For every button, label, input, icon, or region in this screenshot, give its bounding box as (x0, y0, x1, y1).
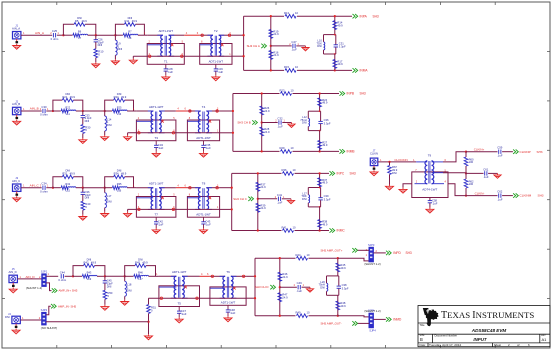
off-page arrow AMP_IN+ (52, 288, 57, 292)
network 1 top loop right (73, 177, 83, 188)
shunt inductor branch 2 (104, 208, 106, 212)
wire T2 lower to output loop (220, 132, 233, 134)
wire T2 top to output loop (220, 110, 233, 112)
svg-text:(NO SHUNT): (NO SHUNT) (41, 326, 58, 330)
capacitor C42 decoupling (154, 217, 164, 228)
svg-text:SH3: SH3 (537, 150, 543, 154)
wire T9 pin4 to bottom rail (448, 184, 466, 196)
svg-text:C38: C38 (342, 283, 347, 287)
resistor R45b 49.9 right top (336, 263, 340, 272)
svg-text:49.9: 49.9 (132, 19, 138, 23)
svg-text:AMP_IN+ SH5: AMP_IN+ SH5 (59, 289, 78, 293)
network 1 series wire right (88, 34, 96, 36)
LC box right lower (335, 47, 337, 54)
wire to L-network 1 (57, 34, 64, 36)
shunt branch (104, 276, 106, 280)
svg-text:24.9: 24.9 (273, 53, 279, 57)
wire SJP4 to INMD (373, 318, 385, 320)
svg-text:100: 100 (469, 160, 474, 164)
svg-text:49.9: 49.9 (70, 95, 76, 99)
wire to transformer (144, 34, 147, 36)
net1 series wire right (97, 275, 105, 277)
wire secondary lower (128, 208, 220, 210)
mid tap wire 2 (282, 122, 291, 124)
svg-text:49.9: 49.9 (322, 143, 328, 147)
svg-text:CLKIN+: CLKIN+ (474, 148, 485, 152)
off-page arrow AMP_IN- (51, 304, 56, 308)
svg-text:T1: T1 (164, 60, 168, 64)
capacitor C34 series input (43, 186, 45, 190)
capacitor C61 mid (485, 171, 487, 175)
off-page arrow CLKINM (513, 193, 518, 197)
svg-text:ADT1-1WT: ADT1-1WT (159, 29, 174, 33)
wire between networks (83, 187, 105, 189)
net2 top loop right (146, 266, 156, 277)
svg-text:SH3: SH3 (373, 14, 379, 18)
shunt branch wire 2 (82, 118, 84, 125)
right leg top (319, 173, 321, 187)
output loop left vertical (243, 16, 245, 70)
resistor R67 49.9 (DNI) (388, 166, 392, 175)
svg-text:SJP2: SJP2 (41, 308, 48, 312)
divider vertical (261, 94, 263, 152)
resistor R46 24.9 divider top (278, 272, 282, 281)
resistor R6 series (73, 33, 80, 37)
svg-text:R29: R29 (280, 146, 285, 150)
svg-text:R23: R23 (280, 88, 285, 92)
wire AIN_D to jumper (17, 278, 41, 280)
jumper SJP3 (369, 247, 373, 261)
capacitor C34 decoupling ground (152, 152, 160, 158)
off-page arrow AMP_OUT+ (352, 248, 357, 252)
inductor L10 parallel (324, 42, 325, 50)
resistor R23 10 top rail (281, 92, 292, 96)
shunt branch wire 3 (95, 58, 97, 63)
svg-text:T6: T6 (226, 270, 230, 274)
svg-text:TEXAS INSTRUMENTS: TEXAS INSTRUMENTS (441, 310, 534, 321)
network 2 top loop right (125, 100, 134, 111)
capacitor C28 decoupling plates (164, 69, 168, 71)
LC box left upper (323, 35, 325, 42)
output bottom rail D (255, 315, 296, 317)
off-page arrow CLKINP (513, 150, 518, 154)
resistor R16 24.9 divider bottom (269, 50, 273, 59)
wire J4 to SJP2 (20, 319, 41, 321)
transformer T3 ADT1-1WT (136, 105, 176, 141)
svg-text:ADT1-1WT: ADT1-1WT (196, 136, 211, 140)
wire to secondary ground (127, 133, 129, 135)
svg-text:B: B (420, 337, 423, 342)
svg-text:L15: L15 (66, 189, 71, 193)
resistor R39 24.9 divider bottom (256, 203, 260, 212)
resistor R42 49.9 (DNI) (84, 264, 95, 268)
off-page arrow INMA (353, 68, 358, 72)
shunt branch wire 3 (82, 134, 84, 139)
transformer T6 ADT1-1WT (210, 270, 246, 305)
connector J2 (AIN_B) ground (13, 120, 21, 126)
svg-text:R6: R6 (78, 30, 82, 34)
resistor R40 0 shunt (81, 201, 85, 210)
svg-text:SH3 CH C: SH3 CH C (233, 197, 247, 201)
capacitor C27 mid tap (293, 44, 295, 48)
output top rail D (255, 257, 296, 259)
ground mid tap (287, 199, 294, 204)
svg-text:.1uF: .1uF (205, 223, 211, 227)
network 2 top loop right (135, 24, 144, 35)
shunt inductor branch (104, 111, 106, 116)
output bottom rail (233, 150, 280, 152)
shunt cap branch wire (95, 35, 97, 39)
svg-text:INMC: INMC (337, 229, 346, 233)
shunt branch wire 3 (82, 210, 84, 215)
capacitor C36 13pF shunt (81, 192, 85, 194)
right leg bottom (334, 54, 336, 70)
cap C59 to arrow (502, 151, 513, 153)
connector J3 (AIN_C) ground (13, 196, 21, 202)
ground T9 primary (399, 188, 407, 194)
inductor L17 parallel (308, 195, 309, 203)
svg-text:C62: C62 (497, 190, 503, 194)
mid tap wire (271, 45, 292, 47)
resistor R26 24.9 divider top (260, 106, 264, 115)
network 1 top loop right (73, 100, 83, 111)
svg-text:R22: R22 (65, 105, 70, 109)
LC box right upper (320, 188, 322, 198)
resistor R35 series (112, 186, 119, 190)
svg-text:24.9: 24.9 (264, 130, 270, 134)
mid tap wire D (280, 286, 297, 288)
resistor R49 10 bottom rail (297, 314, 308, 318)
capacitor C46 mid tap (298, 285, 300, 289)
LC box left upper D (326, 276, 328, 283)
output bottom rail (244, 69, 284, 71)
resistor R62 100 (464, 179, 468, 188)
network 2 series wire (115, 34, 123, 36)
inductor L8 series (130, 34, 138, 35)
inductor L17b series (141, 275, 149, 276)
connector J1 (AIN_A) (12, 24, 21, 44)
svg-text:DNI: DNI (127, 288, 132, 292)
network 1 top loop (53, 100, 62, 111)
ground C58 (426, 208, 434, 214)
resistor R38 49.9 right bottom (318, 220, 322, 229)
jumper SJP2 (42, 312, 46, 325)
svg-text:.1uF: .1uF (167, 70, 173, 74)
svg-text:T4: T4 (202, 105, 206, 109)
svg-text:.1uF: .1uF (277, 124, 283, 128)
svg-text:0 ohm: 0 ohm (40, 113, 48, 117)
LC box right upper (335, 35, 337, 45)
svg-text:R13: R13 (284, 11, 289, 15)
svg-text:T7: T7 (154, 212, 158, 216)
network 2 series wire right (138, 34, 145, 36)
svg-text:.1uF: .1uF (205, 146, 211, 150)
capacitor C47 decoupling plates (177, 311, 181, 313)
svg-text:SH3 CH A: SH3 CH A (247, 44, 260, 48)
svg-text:CLKINP: CLKINP (520, 150, 531, 154)
capacitor C43 decoupling plates (201, 222, 205, 224)
svg-text:49.9: 49.9 (70, 172, 76, 176)
svg-text:SH3 CH B: SH3 CH B (237, 121, 250, 125)
network 1 top loop (53, 177, 62, 188)
wire secondary lower (133, 55, 232, 57)
resistor R7 series (123, 33, 130, 37)
svg-text:DNI: DNI (107, 200, 112, 204)
LC box right lower D (338, 289, 340, 296)
svg-text:SJP4: SJP4 (369, 328, 376, 332)
ground mid tap D (306, 287, 313, 292)
wire between networks (83, 110, 105, 112)
svg-text:DNI: DNI (320, 285, 325, 289)
ground mid tap (302, 46, 309, 51)
LC box bottom (308, 130, 320, 132)
wire R51 to ground (148, 314, 150, 335)
inductor L18 shunt (125, 281, 127, 296)
off-page arrow SH3 CH A (261, 44, 266, 48)
svg-text:of: of (517, 343, 520, 347)
svg-text:DNI: DNI (117, 169, 122, 173)
network 1 series wire right (76, 110, 83, 112)
wire T2 lower to output loop (220, 208, 232, 210)
output bottom rail right (293, 150, 340, 152)
capacitor C58 center tap (428, 201, 432, 203)
resistor R43 series (82, 275, 89, 279)
svg-text:INPD: INPD (393, 251, 401, 255)
svg-text:49.9: 49.9 (322, 181, 328, 185)
capacitor C30 series input (43, 109, 45, 113)
svg-text:R35: R35 (117, 182, 122, 186)
svg-text:L17: L17 (138, 277, 143, 281)
LC box top (324, 34, 336, 36)
resistor R48 49.9 right bottom (336, 301, 340, 310)
svg-text:DNI: DNI (98, 43, 103, 47)
svg-text:24.9: 24.9 (282, 296, 288, 300)
inductor L12 parallel (308, 119, 309, 127)
wire SJP1 pin3 to AMP_IN+ (46, 283, 51, 291)
wire AIN_B net (21, 110, 42, 112)
svg-text:R44: R44 (296, 253, 301, 257)
inductor L20 parallel (327, 283, 328, 291)
resistor R14 49.9 right top (333, 21, 337, 30)
inductor L19 series (89, 275, 97, 276)
svg-text:(SHUNT 1-2): (SHUNT 1-2) (26, 286, 42, 290)
LC box left upper (307, 188, 309, 195)
svg-text:ADT1-1WT: ADT1-1WT (172, 270, 187, 274)
wire between networks (96, 34, 116, 36)
output top rail (244, 15, 284, 17)
ground J4 (12, 328, 20, 334)
network 1 series wire right (76, 187, 83, 189)
svg-text:49.9: 49.9 (340, 266, 346, 270)
svg-text:C31: C31 (339, 41, 344, 45)
wire secondary to R51 (148, 298, 150, 304)
LC box right lower (320, 200, 322, 207)
output top rail right (293, 93, 340, 95)
off-page arrow INPC (330, 171, 335, 175)
svg-text:R25: R25 (117, 105, 122, 109)
wire AIN_C net (21, 187, 42, 189)
svg-text:.1uF: .1uF (181, 312, 187, 316)
shunt inductor branch D (124, 276, 126, 281)
svg-text:SH3 CH D: SH3 CH D (255, 285, 269, 289)
LC box left upper (307, 111, 309, 118)
right leg top (334, 16, 336, 34)
svg-text:C39: C39 (324, 194, 329, 198)
bottom rail to cap C62 (466, 195, 498, 197)
svg-text:49.9: 49.9 (91, 260, 97, 264)
svg-text:R32: R32 (65, 182, 70, 186)
svg-text:10: 10 (295, 65, 298, 69)
mid tap wire (258, 198, 277, 200)
ground C61 (494, 173, 501, 178)
svg-text:DNI: DNI (107, 284, 112, 288)
svg-text:ADT1-1WT: ADT1-1WT (196, 212, 211, 216)
right leg bottom (319, 131, 321, 152)
svg-text:49.9: 49.9 (322, 222, 328, 226)
svg-text:DNI: DNI (117, 92, 122, 96)
wire to transformer (134, 187, 137, 189)
resistor R29 10 bottom rail (281, 150, 292, 154)
svg-text:49.9: 49.9 (322, 101, 328, 105)
svg-text:DNI: DNI (65, 169, 70, 173)
resistor R24 49.9 right top (318, 98, 322, 107)
R67 branch (389, 162, 391, 166)
resistor R45 49.9 (DNI) (135, 264, 146, 268)
svg-text:.1uF: .1uF (158, 146, 164, 150)
transformer T5 ADT1-1WT (159, 270, 200, 306)
svg-text:INMD: INMD (393, 318, 402, 322)
transformer T2 ADT1-1WT (200, 29, 232, 64)
wire rail to SJP4 (338, 316, 369, 317)
svg-text:C41: C41 (277, 193, 283, 197)
transformer T9 ADT4-1WT (412, 154, 448, 198)
svg-text:49.9: 49.9 (81, 19, 87, 23)
wire to L-network 1 (46, 187, 53, 189)
svg-text:ADS58C48 EVM: ADS58C48 EVM (471, 328, 507, 333)
net2 series wire right (149, 275, 156, 277)
svg-text:24.9: 24.9 (260, 185, 266, 189)
resistor R22 series (61, 109, 68, 113)
shunt inductor branch (104, 188, 106, 193)
shunt cap branch wire (82, 111, 84, 115)
capacitor C43 decoupling ground (200, 228, 208, 234)
wire to transformer T5 (156, 275, 159, 277)
jumper SJP1 (42, 274, 46, 287)
R67 branch 2 (389, 175, 391, 185)
connector J7 (CLKIN) (370, 149, 378, 170)
svg-text:R43: R43 (87, 271, 92, 275)
inductor L7 series (80, 34, 88, 35)
wire to transformer (134, 110, 137, 112)
capacitor C35 decoupling (201, 141, 211, 152)
wire mid tap to C61 (466, 172, 484, 174)
ground shunt branch (79, 138, 87, 144)
svg-text:INMA: INMA (360, 69, 369, 73)
connector J2 (AIN_B) (12, 99, 21, 119)
divider vertical (257, 173, 259, 230)
svg-text:0 ohm: 0 ohm (51, 37, 59, 41)
resistor R32 series (61, 186, 68, 190)
svg-text:(SHUNT 1-2): (SHUNT 1-2) (364, 262, 380, 266)
off-page arrow SH3 CH C (248, 197, 253, 201)
svg-text:Document Number: Document Number (435, 333, 458, 337)
resistor R31 49.9 (DNI) (62, 175, 73, 179)
resistor R30 0 shunt (81, 125, 85, 134)
svg-text:SH3: SH3 (350, 172, 356, 176)
svg-text:C36: C36 (324, 118, 329, 122)
wire AMP_OUT- to SJP4 (358, 322, 370, 324)
LC box left lower (307, 127, 309, 131)
svg-text:(SHUNT 1-2): (SHUNT 1-2) (364, 309, 380, 313)
svg-text:CLOCKIN: CLOCKIN (394, 158, 407, 162)
output loop left vertical (232, 94, 234, 152)
svg-text:R15: R15 (284, 65, 289, 69)
inductor L17 shunt (105, 193, 107, 208)
off-page arrow INPA (353, 14, 358, 18)
svg-text:INPC: INPC (337, 172, 345, 176)
svg-text:DNI: DNI (302, 121, 307, 125)
right leg bottom D (337, 295, 339, 315)
capacitor C32 mid tap (279, 120, 281, 124)
output top rail (233, 93, 280, 95)
LC box left lower (323, 50, 325, 54)
svg-text:3.3pF: 3.3pF (342, 287, 349, 291)
connector J5 (AIN_D) (8, 267, 17, 287)
svg-text:T2: T2 (214, 29, 218, 33)
svg-text:R36: R36 (282, 168, 287, 172)
svg-text:DNI: DNI (85, 196, 90, 200)
network 2 top loop (115, 24, 124, 35)
svg-text:SH3: SH3 (538, 194, 544, 198)
wire secondary lower (128, 132, 220, 134)
resistor R41 10 bottom rail (283, 229, 294, 233)
svg-text:49.9: 49.9 (340, 304, 346, 308)
output loop left vertical (231, 173, 233, 230)
capacitor C62 series (499, 193, 501, 197)
capacitor C48 decoupling ground (224, 316, 232, 322)
capacitor C38 parallel (337, 286, 341, 288)
svg-text:3.3pF: 3.3pF (324, 121, 331, 125)
svg-text:10: 10 (293, 225, 296, 229)
svg-text:R49: R49 (296, 311, 301, 315)
output bottom rail right (297, 69, 352, 71)
svg-text:DNI: DNI (107, 123, 112, 127)
svg-text:CLKINM: CLKINM (520, 194, 532, 198)
svg-text:.1uF: .1uF (277, 201, 283, 205)
shunt branch 2 (104, 283, 106, 290)
capacitor C26 15pF shunt (94, 40, 98, 42)
svg-text:.1uF: .1uF (230, 311, 236, 315)
svg-text:ADT1-1WT: ADT1-1WT (149, 182, 164, 186)
LC box left lower D (326, 291, 328, 295)
network 2 series wire (105, 187, 112, 189)
svg-text:AIN_A: AIN_A (12, 26, 20, 30)
cap C62 to arrow (502, 195, 513, 197)
wire AIN_A net (21, 34, 52, 36)
svg-text:L13: L13 (117, 112, 122, 116)
svg-text:ADT1-1WT: ADT1-1WT (209, 60, 224, 64)
divider vertical D (279, 258, 281, 316)
network 2 series wire right (127, 110, 133, 112)
svg-text:DNI: DNI (138, 257, 143, 261)
shunt inductor branch D 2 (124, 296, 126, 299)
wire CLOCKIN (378, 161, 416, 163)
svg-text:SH5 AMP_OUT+: SH5 AMP_OUT+ (321, 248, 343, 252)
capacitor C48 decoupling plates (226, 310, 230, 312)
capacitor C28 decoupling (164, 64, 174, 75)
capacitor C44 series input (61, 274, 63, 278)
svg-text:10: 10 (291, 88, 294, 92)
